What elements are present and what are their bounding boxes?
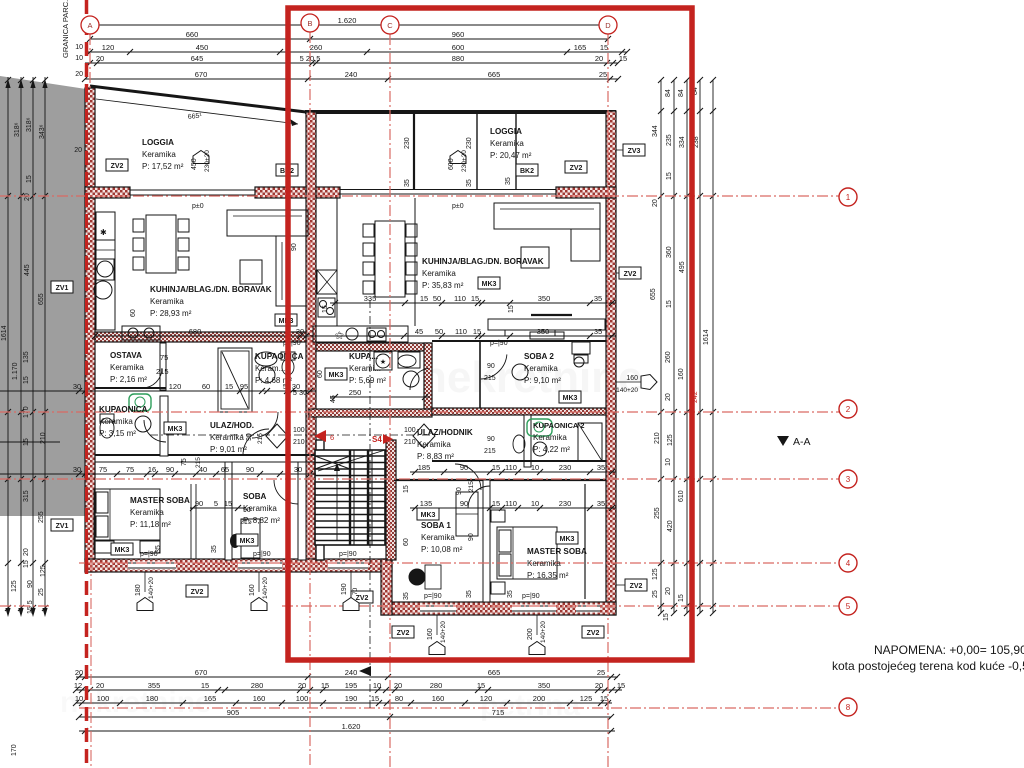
svg-text:20: 20 [595, 681, 603, 690]
svg-text:30: 30 [73, 465, 81, 474]
svg-text:15: 15 [403, 485, 410, 493]
svg-text:Keramika: Keramika [422, 269, 456, 278]
svg-text:318⁶: 318⁶ [14, 122, 21, 137]
svg-text:610: 610 [678, 490, 685, 502]
svg-text:P: 11,18 m²: P: 11,18 m² [130, 520, 171, 529]
svg-text:110: 110 [505, 463, 517, 472]
svg-text:30: 30 [296, 327, 304, 336]
svg-text:25: 25 [652, 590, 659, 598]
svg-text:230+20: 230+20 [461, 150, 468, 172]
svg-text:ZV1: ZV1 [56, 523, 69, 530]
svg-text:12: 12 [74, 681, 82, 690]
svg-text:2: 2 [846, 405, 851, 414]
svg-text:160: 160 [626, 375, 638, 382]
svg-text:185: 185 [418, 463, 431, 472]
svg-text:215: 215 [156, 367, 169, 376]
svg-text:15: 15 [26, 175, 33, 183]
svg-text:960: 960 [452, 30, 465, 39]
svg-text:P: 16,35 m²: P: 16,35 m² [527, 571, 569, 580]
svg-text:20: 20 [665, 587, 672, 595]
svg-text:20: 20 [23, 548, 30, 556]
svg-text:35: 35 [594, 327, 602, 336]
svg-text:15: 15 [666, 300, 673, 308]
svg-text:195: 195 [345, 681, 358, 690]
svg-text:250: 250 [349, 388, 362, 397]
svg-text:35: 35 [597, 499, 605, 508]
svg-text:315: 315 [23, 490, 30, 502]
svg-text:15: 15 [600, 43, 608, 52]
svg-text:343⁶: 343⁶ [39, 124, 46, 139]
svg-text:Keramika: Keramika [99, 417, 133, 426]
svg-text:110: 110 [454, 294, 466, 303]
svg-text:Keramika: Keramika [533, 433, 567, 442]
svg-text:20: 20 [96, 681, 104, 690]
svg-text:p=|90: p=|90 [490, 340, 508, 347]
svg-text:180: 180 [135, 584, 142, 596]
svg-text:344: 344 [652, 125, 659, 137]
svg-text:Keramika: Keramika [142, 150, 176, 159]
svg-text:60: 60 [130, 309, 137, 317]
svg-text:15: 15 [678, 594, 685, 602]
svg-text:60: 60 [202, 382, 210, 391]
svg-text:SOBA: SOBA [243, 492, 267, 501]
svg-text:MK3: MK3 [563, 395, 578, 402]
svg-text:90: 90 [468, 533, 475, 541]
svg-text:B: B [307, 19, 312, 28]
svg-text:20: 20 [74, 147, 82, 154]
svg-text:ZV2: ZV2 [356, 595, 369, 602]
svg-text:230: 230 [466, 137, 473, 149]
svg-text:140+20: 140+20 [616, 387, 638, 394]
svg-text:30: 30 [73, 382, 81, 391]
svg-text:MK3: MK3 [168, 426, 183, 433]
svg-text:680: 680 [189, 327, 202, 336]
svg-text:120: 120 [480, 694, 493, 703]
svg-text:670: 670 [195, 668, 208, 677]
svg-text:✱: ✱ [100, 228, 107, 237]
svg-text:215: 215 [240, 519, 252, 526]
svg-text:15: 15 [492, 499, 500, 508]
svg-text:8: 8 [846, 703, 851, 712]
svg-text:5: 5 [214, 499, 218, 508]
svg-text:215: 215 [484, 375, 496, 382]
svg-text:15: 15 [477, 681, 485, 690]
svg-text:p=|90: p=|90 [522, 593, 540, 600]
svg-text:600: 600 [452, 43, 465, 52]
svg-text:1.620: 1.620 [338, 16, 357, 25]
svg-text:350: 350 [538, 681, 551, 690]
svg-text:LOGGIA: LOGGIA [142, 138, 174, 147]
svg-text:10: 10 [75, 55, 83, 62]
svg-text:110: 110 [455, 327, 467, 336]
svg-text:20: 20 [75, 71, 83, 78]
svg-text:15: 15 [23, 560, 30, 568]
svg-text:90: 90 [460, 499, 468, 508]
svg-text:665: 665 [488, 70, 501, 79]
svg-text:KUHINJA/BLAG./DN. BORAVAK: KUHINJA/BLAG./DN. BORAVAK [422, 257, 544, 266]
svg-text:75: 75 [181, 458, 188, 466]
svg-text:35: 35 [507, 590, 514, 598]
svg-text:BK2: BK2 [520, 168, 534, 175]
svg-text:P: 5,69 m²: P: 5,69 m² [349, 376, 386, 385]
svg-text:125: 125 [580, 694, 593, 703]
svg-text:350: 350 [538, 294, 551, 303]
svg-text:KUPA...: KUPA... [349, 352, 378, 361]
svg-text:215: 215 [468, 481, 475, 492]
svg-text:445: 445 [24, 264, 31, 276]
svg-text:35: 35 [403, 592, 410, 600]
svg-text:60: 60 [403, 538, 410, 546]
svg-text:15: 15 [473, 327, 481, 336]
svg-text:P: 9,10 m²: P: 9,10 m² [524, 376, 561, 385]
svg-text:90: 90 [27, 580, 34, 588]
svg-text:p±0: p±0 [452, 203, 464, 210]
svg-text:35: 35 [211, 545, 218, 553]
svg-text:170: 170 [11, 744, 18, 756]
svg-text:MK3: MK3 [115, 547, 130, 554]
svg-text:20: 20 [652, 199, 659, 207]
svg-text:ZV2: ZV2 [191, 589, 204, 596]
svg-text:15: 15 [471, 294, 479, 303]
svg-text:70: 70 [352, 587, 359, 595]
svg-text:15: 15 [492, 463, 500, 472]
svg-text:210: 210 [404, 439, 416, 446]
svg-text:D: D [605, 21, 611, 30]
svg-text:10: 10 [373, 681, 381, 690]
svg-text:15: 15 [321, 681, 329, 690]
svg-text:880: 880 [452, 54, 465, 63]
svg-text:1614: 1614 [1, 325, 8, 341]
svg-text:15: 15 [322, 305, 329, 313]
svg-text:3: 3 [846, 475, 851, 484]
svg-text:5: 5 [846, 602, 851, 611]
svg-text:90: 90 [243, 507, 251, 514]
svg-text:140+20: 140+20 [262, 577, 269, 599]
svg-text:KUPAONICA: KUPAONICA [255, 352, 304, 361]
svg-text:15 5: 15 5 [27, 600, 34, 614]
svg-text:p±0: p±0 [192, 203, 204, 210]
svg-text:350: 350 [537, 327, 550, 336]
svg-text:Kerami...: Kerami... [349, 364, 381, 373]
svg-text:65: 65 [221, 465, 229, 474]
svg-text:P: 8,83 m²: P: 8,83 m² [417, 452, 454, 461]
svg-text:84: 84 [665, 89, 672, 97]
svg-text:655: 655 [38, 293, 45, 305]
svg-text:20: 20 [595, 54, 603, 63]
svg-text:Keramika: Keramika [150, 297, 184, 306]
svg-text:ULAZ/HODNIK: ULAZ/HODNIK [417, 428, 473, 437]
svg-text:160: 160 [432, 694, 445, 703]
svg-text:15: 15 [225, 382, 233, 391]
svg-text:240: 240 [345, 70, 358, 79]
svg-text:MK3: MK3 [240, 538, 255, 545]
svg-text:Keramika: Keramika [110, 363, 144, 372]
svg-text:Keramika: Keramika [524, 364, 558, 373]
svg-text:P: 17,52 m²: P: 17,52 m² [142, 162, 184, 171]
svg-text:360: 360 [666, 246, 673, 258]
svg-text:P: 20,47 m²: P: 20,47 m² [490, 151, 532, 160]
svg-text:280: 280 [251, 681, 264, 690]
svg-text:318⁶: 318⁶ [26, 117, 33, 132]
svg-text:10: 10 [75, 44, 83, 51]
svg-text:ZV2: ZV2 [570, 165, 583, 172]
svg-text:255: 255 [654, 507, 661, 519]
svg-text:334: 334 [679, 136, 686, 148]
svg-text:MK3: MK3 [560, 536, 575, 543]
svg-text:ZV2: ZV2 [624, 271, 637, 278]
svg-text:90: 90 [487, 363, 495, 370]
svg-text:50: 50 [433, 294, 441, 303]
svg-text:180: 180 [146, 694, 159, 703]
svg-text:495: 495 [679, 261, 686, 273]
svg-text:240: 240 [345, 668, 358, 677]
svg-text:15: 15 [508, 305, 515, 313]
svg-text:25: 25 [599, 70, 607, 79]
svg-text:235: 235 [666, 134, 673, 146]
svg-text:Keram...: Keram... [255, 364, 285, 373]
svg-text:10: 10 [75, 694, 83, 703]
svg-text:Keramika: Keramika [421, 533, 455, 542]
svg-text:160: 160 [249, 584, 256, 596]
svg-text:45: 45 [415, 327, 423, 336]
svg-text:160: 160 [253, 694, 266, 703]
svg-text:260: 260 [310, 43, 323, 52]
svg-text:110: 110 [505, 499, 517, 508]
svg-text:50: 50 [435, 327, 443, 336]
svg-text:P: 10,08 m²: P: 10,08 m² [421, 545, 463, 554]
svg-text:645: 645 [191, 54, 204, 63]
svg-text:135: 135 [23, 351, 30, 363]
svg-text:230: 230 [559, 463, 572, 472]
svg-text:p=|90: p=|90 [339, 551, 357, 558]
svg-text:120: 120 [169, 382, 182, 391]
svg-text:905: 905 [227, 708, 240, 717]
svg-text:⚝: ⚝ [335, 330, 344, 340]
svg-text:25: 25 [597, 668, 605, 677]
svg-text:P: 28,93 m²: P: 28,93 m² [150, 309, 192, 318]
svg-text:15: 15 [201, 681, 209, 690]
svg-text:15: 15 [224, 499, 232, 508]
svg-text:MASTER SOBA: MASTER SOBA [130, 496, 190, 505]
svg-text:ZV3: ZV3 [628, 148, 641, 155]
svg-text:1: 1 [846, 193, 851, 202]
svg-text:Keramika: Keramika [490, 139, 524, 148]
svg-text:10: 10 [665, 458, 672, 466]
svg-text:20: 20 [24, 193, 31, 201]
svg-text:10: 10 [531, 499, 539, 508]
svg-text:200: 200 [533, 694, 546, 703]
svg-text:ZV2: ZV2 [111, 163, 124, 170]
svg-text:35: 35 [155, 545, 162, 553]
svg-text:ZV2: ZV2 [587, 630, 600, 637]
svg-text:NAPOMENA: +0,00= 105,90: NAPOMENA: +0,00= 105,90 [874, 643, 1024, 657]
svg-text:190: 190 [341, 583, 348, 595]
svg-text:60: 60 [317, 370, 324, 378]
svg-text:MASTER SOBA: MASTER SOBA [527, 547, 587, 556]
svg-text:35: 35 [466, 179, 473, 187]
svg-text:16: 16 [148, 465, 156, 474]
svg-text:15: 15 [23, 438, 30, 446]
svg-text:140+20: 140+20 [148, 577, 155, 599]
svg-text:Keramika: Keramika [210, 433, 244, 442]
svg-text:15: 15 [619, 54, 627, 63]
svg-text:125: 125 [11, 580, 18, 592]
svg-text:LOGGIA: LOGGIA [490, 127, 522, 136]
svg-text:15: 15 [617, 681, 625, 690]
svg-text:15: 15 [371, 694, 379, 703]
svg-text:1.170: 1.170 [12, 362, 19, 380]
svg-text:125: 125 [667, 434, 674, 446]
svg-text:25: 25 [38, 588, 45, 596]
svg-text:90: 90 [246, 433, 253, 441]
svg-text:OSTAVA: OSTAVA [110, 351, 142, 360]
svg-text:KUPAONICA 2: KUPAONICA 2 [533, 421, 584, 430]
svg-text:100: 100 [296, 694, 309, 703]
svg-text:A-A: A-A [793, 436, 811, 448]
svg-text:260: 260 [665, 351, 672, 363]
svg-text:P: 3,15 m²: P: 3,15 m² [99, 429, 136, 438]
svg-text:20: 20 [298, 681, 306, 690]
svg-text:SOBA 1: SOBA 1 [421, 521, 451, 530]
svg-text:20: 20 [394, 681, 402, 690]
svg-text:160: 160 [427, 628, 434, 640]
svg-text:75: 75 [99, 465, 107, 474]
svg-text:15: 15 [420, 294, 428, 303]
svg-text:135: 135 [420, 499, 433, 508]
svg-text:120: 120 [102, 43, 115, 52]
svg-text:100: 100 [97, 694, 110, 703]
svg-text:KUPAONICA: KUPAONICA [99, 405, 148, 414]
svg-text:35: 35 [404, 179, 411, 187]
svg-text:35: 35 [466, 590, 473, 598]
svg-text:KUHINJA/BLAG./DN. BORAVAK: KUHINJA/BLAG./DN. BORAVAK [150, 285, 272, 294]
svg-text:5 30: 5 30 [293, 388, 308, 397]
svg-text:p=|90: p=|90 [424, 593, 442, 600]
svg-text:75: 75 [160, 353, 168, 362]
svg-text:210: 210 [40, 432, 47, 444]
svg-text:ZV1: ZV1 [56, 285, 69, 292]
svg-text:4: 4 [846, 559, 851, 568]
svg-text:1614: 1614 [703, 329, 710, 345]
svg-text:80: 80 [395, 694, 403, 703]
svg-text:255: 255 [38, 511, 45, 523]
svg-text:655: 655 [650, 288, 657, 300]
svg-text:165: 165 [204, 694, 217, 703]
svg-text:715: 715 [492, 708, 505, 717]
svg-text:160: 160 [678, 368, 685, 380]
svg-text:MK3: MK3 [482, 281, 497, 288]
svg-text:kota postojećeg terena kod kuć: kota postojećeg terena kod kuće -0,50 [832, 659, 1024, 673]
svg-text:210: 210 [654, 432, 661, 444]
svg-text:210: 210 [293, 439, 305, 446]
svg-text:Keramika: Keramika [527, 559, 561, 568]
svg-text:30: 30 [294, 465, 302, 474]
svg-text:215: 215 [195, 457, 202, 468]
svg-text:Keramika: Keramika [130, 508, 164, 517]
svg-text:140+20: 140+20 [540, 621, 547, 643]
svg-text:p=|90: p=|90 [253, 551, 271, 558]
svg-text:45: 45 [330, 395, 337, 403]
svg-text:660: 660 [186, 30, 199, 39]
svg-text:280: 280 [430, 681, 443, 690]
svg-text:ULAZ/HOD.: ULAZ/HOD. [210, 421, 254, 430]
svg-text:35: 35 [594, 294, 602, 303]
svg-text:10: 10 [531, 463, 539, 472]
svg-text:20: 20 [96, 54, 104, 63]
svg-text:35: 35 [505, 177, 512, 185]
svg-text:P: 9,01 m²: P: 9,01 m² [210, 445, 247, 454]
svg-text:Keramika: Keramika [417, 440, 451, 449]
svg-text:A: A [87, 21, 92, 30]
svg-text:15: 15 [600, 694, 608, 703]
svg-text:P: 4,22 m²: P: 4,22 m² [533, 445, 570, 454]
svg-text:C: C [387, 21, 393, 30]
svg-text:140+20: 140+20 [440, 621, 447, 643]
svg-text:6: 6 [330, 433, 334, 442]
svg-text:600: 600 [448, 158, 455, 170]
svg-text:1.620: 1.620 [342, 722, 361, 731]
svg-text:84: 84 [678, 89, 685, 97]
svg-text:P: 35,83 m²: P: 35,83 m² [422, 281, 464, 290]
svg-text:GRANICA PARC.: GRANICA PARC. [61, 0, 70, 58]
svg-text:90: 90 [456, 487, 463, 495]
svg-text:670: 670 [195, 70, 208, 79]
svg-text:420: 420 [667, 520, 674, 532]
svg-text:ZV2: ZV2 [397, 630, 410, 637]
svg-text:S4: S4 [372, 435, 382, 444]
svg-text:ZV2: ZV2 [630, 583, 643, 590]
svg-text:90: 90 [460, 463, 468, 472]
svg-text:450: 450 [196, 43, 209, 52]
svg-text:35: 35 [597, 463, 605, 472]
svg-text:355: 355 [148, 681, 161, 690]
svg-text:165: 165 [574, 43, 587, 52]
svg-text:20: 20 [665, 393, 672, 401]
svg-text:215: 215 [484, 448, 496, 455]
svg-text:95: 95 [240, 382, 248, 391]
svg-text:665: 665 [488, 668, 501, 677]
svg-text:20: 20 [75, 668, 83, 677]
svg-text:75: 75 [126, 465, 134, 474]
svg-text:230: 230 [404, 137, 411, 149]
svg-text:230+20: 230+20 [204, 150, 211, 172]
svg-text:SOBA 2: SOBA 2 [524, 352, 554, 361]
svg-text:15: 15 [23, 376, 30, 384]
svg-text:90: 90 [291, 243, 298, 251]
svg-text:MK3: MK3 [329, 372, 344, 379]
svg-text:P: 2,16 m²: P: 2,16 m² [110, 375, 147, 384]
svg-text:90: 90 [166, 465, 174, 474]
svg-text:450: 450 [191, 158, 198, 170]
svg-text:MK3: MK3 [421, 512, 436, 519]
svg-text:15: 15 [663, 613, 670, 621]
svg-text:190: 190 [345, 694, 358, 703]
svg-text:230: 230 [559, 499, 572, 508]
svg-text:200: 200 [527, 628, 534, 640]
svg-text:90: 90 [246, 465, 254, 474]
svg-text:125: 125 [652, 568, 659, 580]
svg-text:100: 100 [293, 427, 305, 434]
svg-text:90: 90 [487, 436, 495, 443]
svg-text:215: 215 [257, 433, 264, 444]
svg-text:125: 125 [40, 565, 47, 577]
svg-text:100: 100 [404, 427, 416, 434]
svg-text:15: 15 [666, 172, 673, 180]
